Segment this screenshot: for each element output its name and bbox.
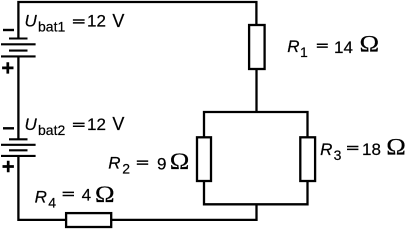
svg-text:Ω: Ω bbox=[386, 135, 406, 160]
svg-text:12: 12 bbox=[87, 12, 106, 31]
svg-text:Ω: Ω bbox=[170, 149, 190, 174]
svg-text:14: 14 bbox=[334, 38, 353, 57]
svg-text:1: 1 bbox=[300, 44, 308, 60]
svg-text:U: U bbox=[25, 115, 38, 134]
svg-text:V: V bbox=[112, 114, 124, 134]
svg-text:V: V bbox=[112, 11, 124, 31]
svg-text:U: U bbox=[25, 12, 38, 31]
svg-text:3: 3 bbox=[334, 147, 342, 163]
svg-text:4: 4 bbox=[82, 185, 91, 204]
svg-text:12: 12 bbox=[87, 115, 106, 134]
svg-text:Ω: Ω bbox=[95, 182, 115, 207]
svg-text:4: 4 bbox=[48, 194, 56, 210]
svg-text:R: R bbox=[108, 154, 120, 173]
svg-text:2: 2 bbox=[122, 161, 130, 177]
svg-text:Ω: Ω bbox=[360, 32, 380, 57]
svg-text:18: 18 bbox=[362, 140, 381, 159]
svg-text:R: R bbox=[320, 140, 332, 159]
svg-text:R: R bbox=[35, 187, 47, 206]
svg-text:R: R bbox=[287, 37, 299, 56]
svg-text:bat2: bat2 bbox=[38, 122, 65, 138]
svg-text:9: 9 bbox=[157, 154, 166, 173]
svg-text:bat1: bat1 bbox=[38, 19, 65, 35]
